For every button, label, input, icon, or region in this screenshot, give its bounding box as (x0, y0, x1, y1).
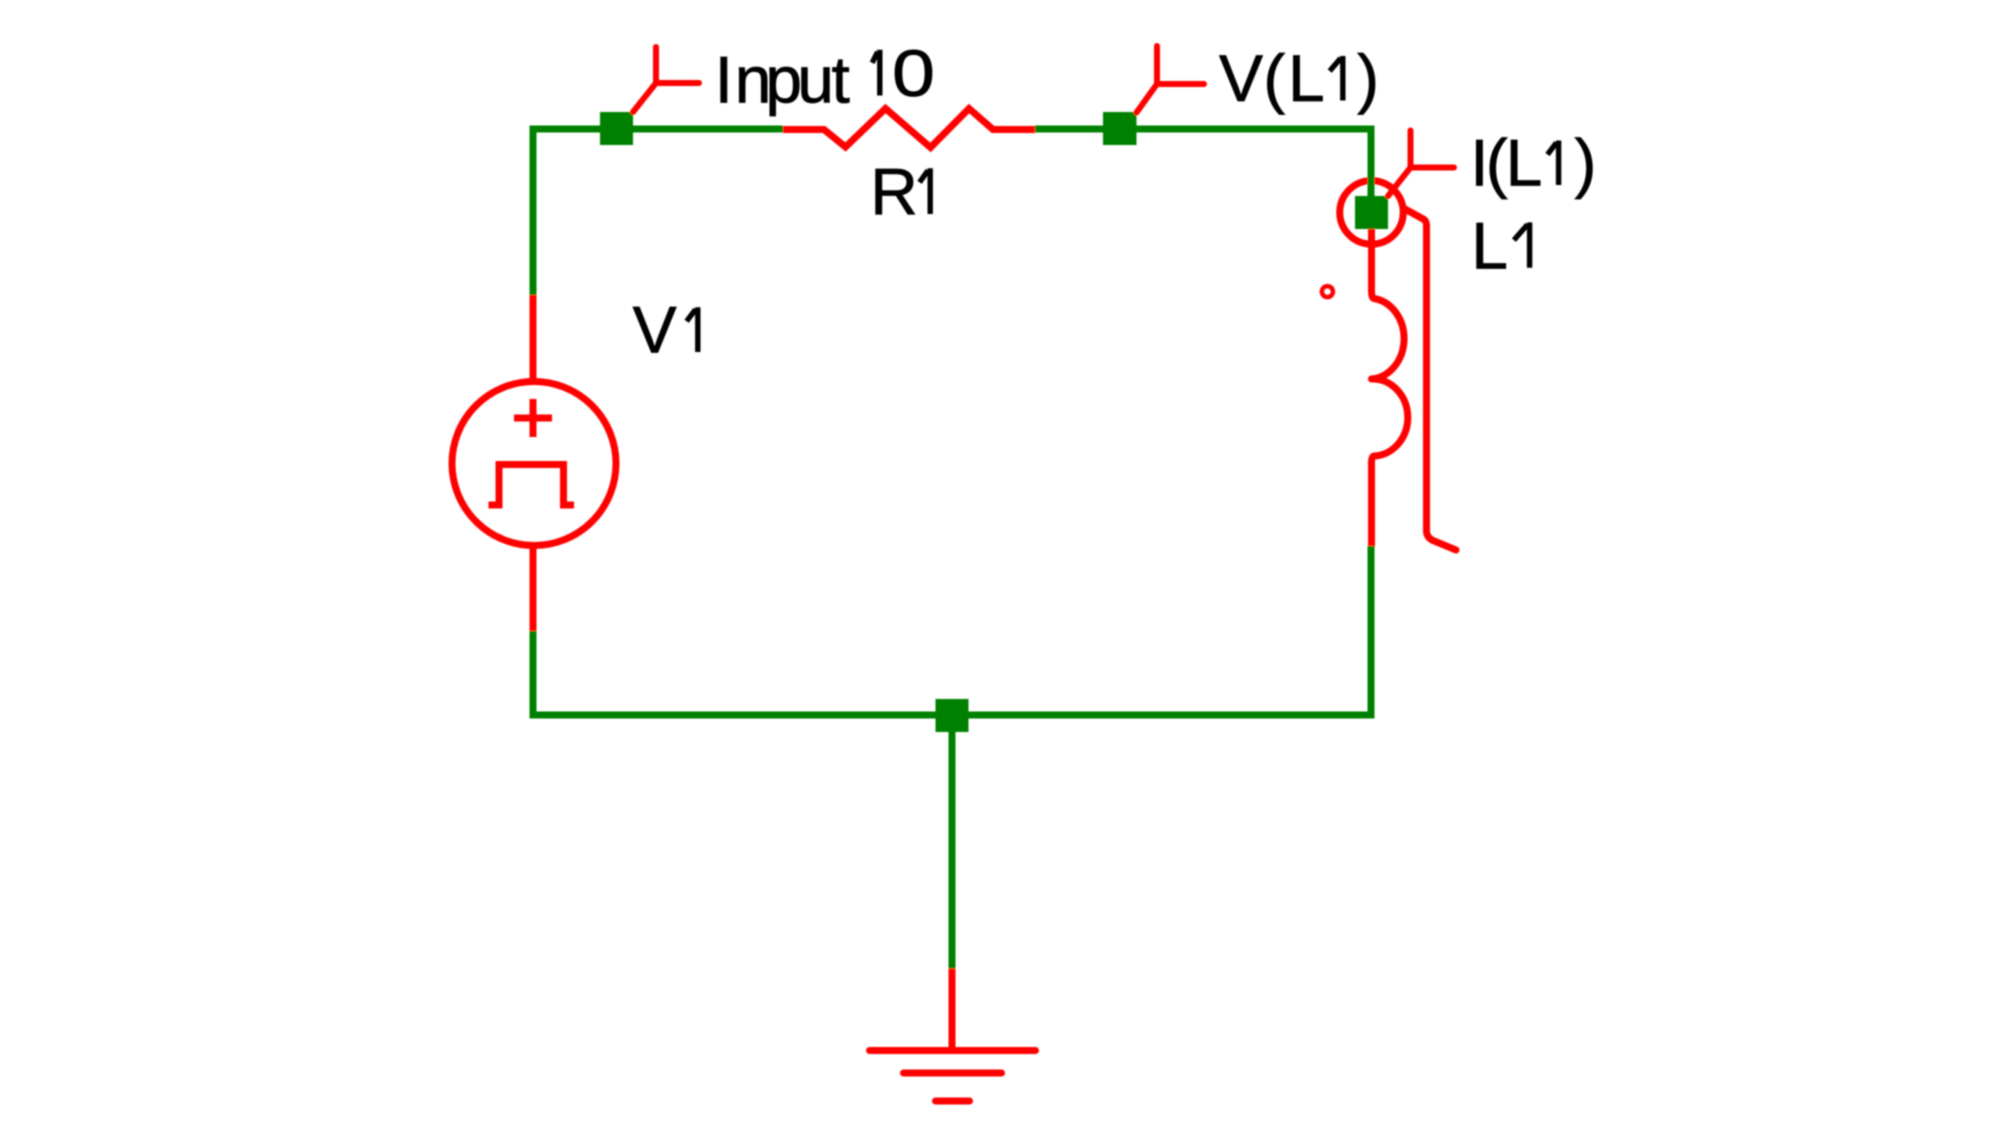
svg-text:L: L (1288, 41, 1325, 115)
svg-text:t: t (832, 43, 850, 117)
svg-text:(: ( (1486, 126, 1508, 200)
svg-text:I: I (715, 43, 733, 117)
svg-text:(: ( (1263, 41, 1285, 115)
svg-text:L: L (1506, 126, 1543, 200)
svg-text:V: V (1219, 41, 1263, 115)
svg-text:): ) (1575, 126, 1597, 200)
svg-text:V: V (633, 293, 677, 367)
svg-text:0: 0 (892, 36, 935, 110)
svg-text:u: u (797, 43, 834, 117)
svg-text:): ) (1357, 41, 1379, 115)
svg-text:L: L (1471, 208, 1508, 282)
svg-text:R: R (870, 155, 918, 229)
